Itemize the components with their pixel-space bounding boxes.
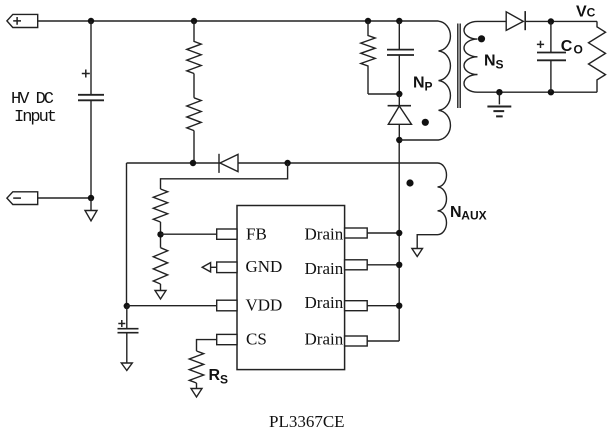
earth ground secondary bbox=[498, 92, 500, 104]
wire input cap bottom bbox=[90, 100, 92, 198]
node top rail at snubber cap / primary bbox=[396, 18, 402, 24]
capacitor C_sn top wire bbox=[398, 21, 400, 49]
capacitor C_in plus mark bbox=[82, 70, 90, 78]
diode D_out bbox=[506, 12, 523, 31]
resistor R_load bbox=[589, 21, 606, 92]
resistor R4 fb lower bbox=[153, 248, 167, 284]
ground arrow below C_vdd bbox=[121, 363, 132, 371]
ground arrow below aux bbox=[412, 249, 423, 257]
ground arrow at negative input bbox=[90, 198, 92, 211]
node drain3 bbox=[396, 303, 402, 309]
svg-text:VDD: VDD bbox=[246, 296, 283, 315]
resistor RS current sense bbox=[189, 351, 203, 383]
aux phase dot bbox=[406, 179, 413, 186]
connector J2 minus terminal bbox=[7, 192, 38, 205]
svg-text:Input: Input bbox=[14, 108, 56, 127]
wire drain bus bbox=[398, 140, 400, 341]
node top rail at input cap bbox=[88, 18, 94, 24]
wire vdd node to cap bbox=[126, 306, 128, 329]
pin CS box bbox=[217, 334, 237, 344]
wire between startup resistors bbox=[193, 74, 195, 98]
diode D2 vdd rectifier bbox=[218, 154, 220, 173]
node vdd bbox=[124, 303, 130, 309]
transformer aux Naux winding bbox=[417, 163, 446, 249]
capacitor C_vdd plus mark bbox=[118, 320, 125, 327]
capacitor C_sn bbox=[387, 50, 414, 55]
svg-text:CS: CS bbox=[246, 329, 267, 348]
wire snubber bottom bbox=[368, 93, 399, 95]
primary phase dot bbox=[422, 119, 429, 126]
pin FB box bbox=[217, 229, 237, 239]
wire snubber cap bottom bbox=[398, 55, 400, 94]
svg-text:R: R bbox=[209, 367, 221, 384]
node snubber bottom bbox=[396, 91, 402, 97]
node primary bottom / drain top bbox=[396, 137, 402, 143]
wire startup resistor to aux row bbox=[193, 131, 195, 163]
diode D_sn clamp bbox=[398, 94, 400, 140]
wire vdd node to VDD pin bbox=[127, 305, 217, 307]
svg-text:FB: FB bbox=[246, 224, 267, 243]
svg-text:HV DC: HV DC bbox=[11, 90, 54, 109]
resistor R3 fb upper bbox=[153, 189, 167, 222]
node output top bbox=[548, 18, 554, 24]
wire output cap bottom bbox=[550, 60, 552, 92]
svg-text:Drain: Drain bbox=[305, 330, 344, 349]
node startup resistor bottom bbox=[190, 160, 196, 166]
svg-text:S: S bbox=[220, 372, 228, 386]
pin GND box bbox=[217, 262, 237, 273]
pin VDD box bbox=[217, 300, 237, 311]
gnd stub wire bbox=[211, 266, 217, 268]
node secondary ground bbox=[496, 89, 502, 95]
wire fb branch down-left bbox=[161, 163, 288, 189]
ground arrow below R4 bbox=[160, 284, 162, 291]
svg-text:Drain: Drain bbox=[305, 293, 344, 312]
wire aux row right segment bbox=[238, 162, 438, 164]
node top rail at snubber resistor bbox=[365, 18, 371, 24]
connector J1 plus terminal bbox=[7, 14, 38, 27]
svg-text:P: P bbox=[425, 80, 433, 94]
wire vdd column bbox=[126, 163, 128, 306]
wire drain4 bbox=[367, 340, 399, 342]
wire secondary top to diode bbox=[478, 20, 507, 22]
transformer secondary Ns winding bbox=[464, 21, 478, 92]
capacitor C_in bbox=[78, 95, 104, 101]
node drain2 bbox=[396, 262, 402, 268]
node drain1 bbox=[396, 230, 402, 236]
svg-text:N: N bbox=[413, 75, 425, 92]
plus sign inside J1 bbox=[13, 17, 21, 25]
node fb tap bbox=[157, 231, 163, 237]
pin Drain4 box bbox=[345, 336, 368, 346]
ground arrow below RS bbox=[196, 383, 198, 389]
wire secondary bottom bbox=[478, 91, 598, 93]
transformer core bbox=[458, 24, 460, 109]
minus sign inside J2 bbox=[13, 197, 21, 199]
secondary phase dot bbox=[478, 35, 485, 42]
svg-text:C: C bbox=[561, 38, 573, 55]
wire drain2 bbox=[367, 264, 399, 266]
pin Drain2 box bbox=[345, 260, 368, 270]
svg-text:V: V bbox=[576, 3, 587, 20]
wire output cap top bbox=[550, 22, 552, 53]
wire input cap top bbox=[90, 21, 92, 94]
pin Drain3 box bbox=[345, 301, 368, 311]
wire drain3 bbox=[367, 305, 399, 307]
transformer primary Np winding bbox=[399, 21, 450, 140]
svg-text:C: C bbox=[587, 5, 596, 19]
svg-text:GND: GND bbox=[246, 257, 283, 276]
wire diode to output node bbox=[525, 20, 597, 22]
node top rail at startup resistor bbox=[191, 18, 197, 24]
wire cap to ground arrow bbox=[126, 333, 128, 363]
resistor R2 startup lower bbox=[187, 98, 201, 131]
wire aux row left segment bbox=[127, 162, 221, 164]
wire drain1 bbox=[367, 232, 399, 234]
svg-text:AUX: AUX bbox=[461, 209, 486, 223]
node output bottom bbox=[548, 89, 554, 95]
svg-text:N: N bbox=[450, 204, 462, 221]
svg-text:Drain: Drain bbox=[305, 259, 344, 278]
svg-text:PL3367CE: PL3367CE bbox=[269, 412, 345, 431]
capacitor C_O plus mark bbox=[537, 41, 544, 48]
svg-text:O: O bbox=[574, 43, 583, 57]
svg-text:Drain: Drain bbox=[305, 224, 344, 243]
pin Drain1 box bbox=[345, 228, 368, 238]
svg-text:N: N bbox=[484, 53, 496, 70]
resistor R_sn snubber bbox=[361, 21, 375, 94]
wire top rail bbox=[38, 20, 439, 22]
op-amp U1 PL3367CE body bbox=[237, 206, 345, 370]
wire fb tap bbox=[160, 222, 162, 248]
capacitor C_O bbox=[537, 53, 566, 61]
svg-text:S: S bbox=[496, 58, 504, 72]
wire CS pin to Rs bbox=[197, 340, 217, 351]
wire minus terminal to node bbox=[38, 197, 91, 199]
capacitor C_vdd bbox=[118, 329, 139, 333]
wire fb tap to FB pin bbox=[161, 233, 217, 235]
ground arrow at GND pin bbox=[202, 263, 210, 272]
node negative input bbox=[88, 195, 94, 201]
node fb divider tap on aux row bbox=[284, 160, 290, 166]
resistor R1 startup upper bbox=[187, 21, 201, 74]
